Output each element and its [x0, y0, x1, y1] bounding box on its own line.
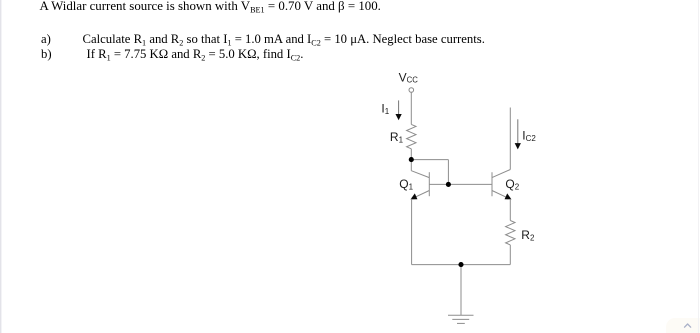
svg-text:Q1: Q1 [399, 177, 413, 192]
resistor R1 [407, 124, 416, 148]
ground bar 1 [448, 314, 474, 316]
node B junction dot [446, 182, 451, 187]
scroll button faint background [666, 318, 700, 333]
node C junction dot [458, 262, 463, 267]
current IC2 label [522, 128, 536, 143]
node VCC label [399, 71, 419, 85]
current I1 label [381, 102, 389, 117]
svg-text:IC2: IC2 [522, 128, 536, 143]
wire Q2 collector from top [509, 108, 511, 170]
Q2 emitter arrowhead [505, 195, 510, 199]
item b label [41, 47, 52, 62]
item b text [87, 47, 304, 62]
wire node A down to Q1 collector [410, 160, 412, 171]
base wire Q1 to Q2 [429, 183, 492, 185]
svg-text:R1: R1 [390, 130, 404, 145]
svg-text:R2: R2 [521, 228, 535, 243]
current IC2 arrow stem [517, 119, 519, 144]
ground bar 3 [457, 322, 465, 324]
wire R1 to node A [410, 149, 412, 160]
item a label [41, 32, 51, 47]
ground bar 2 [452, 318, 469, 320]
left page edge shading [0, 0, 1, 333]
Q2 label [505, 177, 519, 192]
transistor Q1 base bar [428, 172, 430, 196]
resistor R2 [506, 221, 515, 245]
Q1 label [399, 177, 413, 192]
R1 value label [390, 130, 404, 145]
Q1 emitter arrowhead [412, 195, 417, 199]
bottom rail wire [412, 264, 511, 266]
wire VCC to R1 [410, 92, 412, 124]
Q1 collector lead [411, 171, 429, 178]
svg-text:I1: I1 [381, 102, 389, 117]
svg-text:Q2: Q2 [505, 177, 519, 192]
problem statement line 1 [40, 0, 381, 14]
item a text [83, 32, 485, 47]
scroll-to-top chevron [685, 324, 691, 327]
node A junction dot [409, 157, 414, 162]
Q2 collector lead [492, 170, 510, 178]
wire down to Q1 base node [447, 160, 449, 185]
transistor Q2 base bar [491, 172, 493, 196]
VCC terminal circle [409, 88, 414, 93]
Q2 emitter lead [492, 191, 507, 198]
wire Q1 emitter down [411, 199, 413, 265]
current I1 arrow stem [398, 100, 400, 114]
wire R2 to bottom rail [509, 245, 511, 265]
wire Q2 emitter down to R2 [509, 199, 511, 221]
wire node A right [411, 159, 448, 161]
R2 value label [521, 228, 535, 243]
right page edge shading [698, 0, 699, 333]
current IC2 arrowhead [515, 144, 520, 149]
ground stem wire [460, 265, 462, 316]
current I1 arrowhead [396, 114, 401, 119]
svg-text:VCC: VCC [399, 71, 419, 85]
Q1 emitter lead [415, 191, 430, 198]
